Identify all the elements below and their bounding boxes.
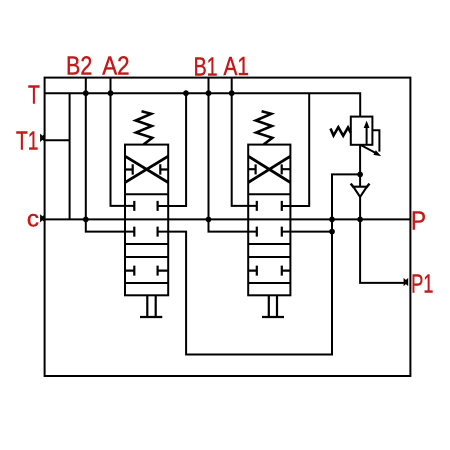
valve V1 X-box port stubs xyxy=(125,164,168,174)
valve V2 return spring xyxy=(256,111,273,144)
svg-text:A1: A1 xyxy=(224,51,250,81)
junction dot P-line loop xyxy=(329,217,335,223)
wire T return left valve xyxy=(158,93,187,206)
svg-text:T1: T1 xyxy=(16,126,39,156)
valve V1 section2 port bars xyxy=(134,227,157,237)
valve V1 body xyxy=(125,145,168,296)
wire T manifold (port T to relief valve inlet) xyxy=(45,93,361,116)
wire T return right valve xyxy=(282,93,309,206)
valve V1 return spring xyxy=(136,111,153,144)
junction dot T-line B1 xyxy=(206,90,212,96)
svg-text:A2: A2 xyxy=(102,51,129,81)
svg-text:P1: P1 xyxy=(411,269,433,299)
valve V1 section1 port bars xyxy=(134,201,157,211)
svg-text:B1: B1 xyxy=(194,51,218,81)
valve V2 section4 ports xyxy=(248,266,290,276)
junction dot T-line B2 xyxy=(83,90,89,96)
port marker P1 xyxy=(404,278,409,286)
valve V1 actuator stem xyxy=(140,295,162,317)
junction dot T-line A2 xyxy=(108,90,114,96)
port marker c xyxy=(40,214,45,222)
wire B2 drop xyxy=(86,78,135,232)
valve block enclosure xyxy=(45,78,411,376)
svg-text:T: T xyxy=(28,80,40,110)
valve V2 body xyxy=(248,145,290,296)
wire c / P gallery (horizontal through both valves) xyxy=(45,218,411,220)
svg-text:B2: B2 xyxy=(66,51,92,81)
check valve CV1 poppet xyxy=(353,187,367,197)
check valve CV1 seat wings xyxy=(351,184,370,188)
junction dot loop stub xyxy=(329,229,335,235)
junction dot T-line left return xyxy=(183,90,189,96)
wire relief valve outlet xyxy=(359,145,361,188)
junction dot c-line B2 xyxy=(83,217,89,223)
valve V1 crossed-arrows position xyxy=(125,156,168,182)
svg-text:P: P xyxy=(411,206,426,236)
wire right valve sec2 right port stub xyxy=(282,231,332,233)
wire carry-over loop (left valve sec2 right port around bottom to check valve) xyxy=(158,174,361,354)
junction dot T-line A1 xyxy=(229,90,235,96)
svg-text:c: c xyxy=(27,206,39,232)
relief valve RV1 body xyxy=(351,117,373,145)
valve V2 section1 port bars xyxy=(257,201,282,211)
valve V2 actuator stem xyxy=(262,295,284,317)
wire T1 branch xyxy=(45,93,70,219)
wire check valve to P gallery xyxy=(359,197,361,220)
wire A2 drop xyxy=(111,78,135,206)
junction dot P-line B1 xyxy=(206,217,212,223)
port marker T1 xyxy=(40,134,45,142)
wire A1 drop xyxy=(232,78,257,206)
valve V1 section dividers xyxy=(125,194,168,283)
relief valve RV1 spring xyxy=(331,127,351,136)
junction dot check valve bypass xyxy=(357,172,363,178)
wire P1 branch xyxy=(360,219,406,283)
valve V2 crossed-arrows position xyxy=(248,156,290,182)
valve V2 section2 port bars xyxy=(257,227,282,237)
relief valve RV1 flow arrow xyxy=(366,127,368,145)
relief valve RV1 adjustment arrow xyxy=(360,145,377,154)
valve V2 section dividers xyxy=(248,194,290,283)
valve V2 X-box port stubs xyxy=(248,164,290,174)
wire B1 drop xyxy=(209,78,257,232)
junction dot P-line P1 riser xyxy=(357,217,363,223)
valve V1 section4 ports xyxy=(125,266,168,276)
relief valve RV1 pilot tab xyxy=(372,130,379,151)
